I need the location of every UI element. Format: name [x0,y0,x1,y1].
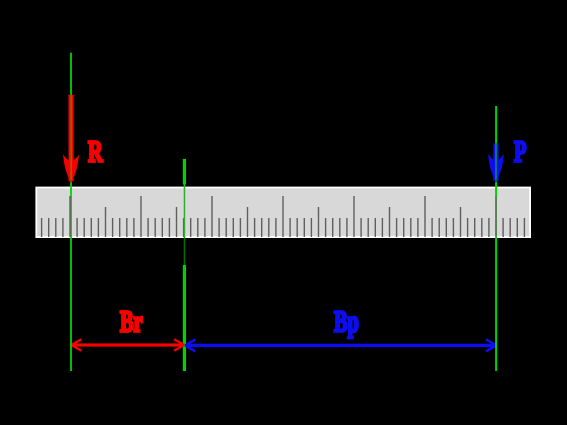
green line showing through R shaft [70,95,71,181]
Bp right arrowhead wings [486,339,496,351]
node line middle: thin segment through ruler [184,185,186,238]
Br right arrowhead wings [174,339,184,350]
force arrow P (blue, downward): shaft [493,143,498,181]
node line middle (green): upper thick segment [183,159,186,185]
node line left (green, under force R) [70,53,72,196]
node line right (green, under force P) [495,106,497,196]
svg-text:Bp: Bp [334,304,359,338]
ruler face [37,188,529,236]
svg-text:P: P [514,134,526,168]
Br left arrowhead wings [71,339,81,350]
svg-text:R: R [88,134,103,168]
dimension arrow Br shaft (red) [72,343,185,346]
green line showing through P shaft [495,143,496,180]
force arrow R (red, downward): shaft [69,95,74,182]
node line middle: dark thin segment below ruler [184,238,186,266]
ruler tick marks [42,196,525,237]
ruler body (white border) [35,187,531,238]
force arrow R: head [63,154,79,183]
dimension arrow Bp shaft (blue) [185,344,496,347]
svg-text:Br: Br [120,304,143,338]
node line middle: lower thick segment [183,265,186,371]
force arrow P: head [488,154,504,183]
Bp left arrowhead wings [185,339,195,351]
